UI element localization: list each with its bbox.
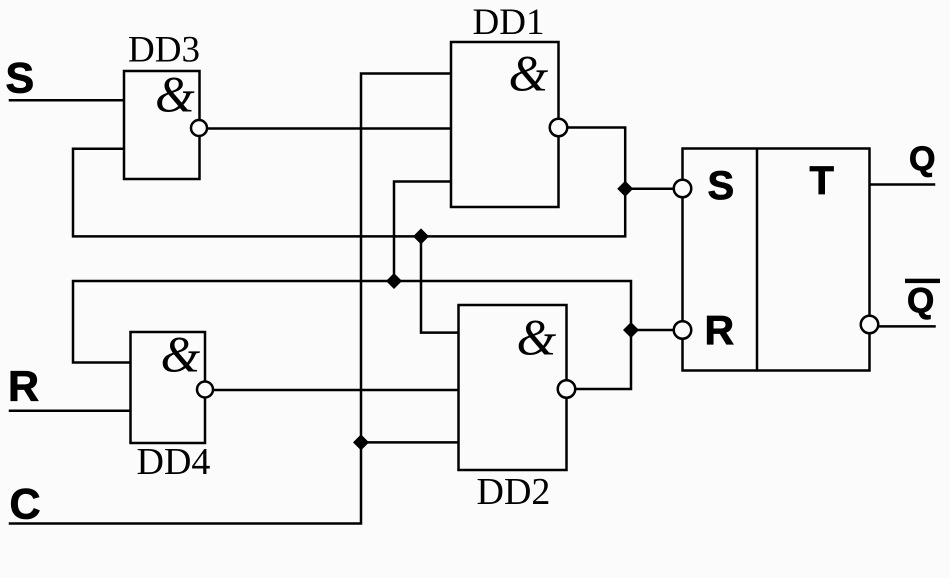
wire branch: node B up to DD1 pin3 xyxy=(394,182,451,282)
flip-flop R input inversion bubble xyxy=(674,321,692,339)
svg-text:S: S xyxy=(708,164,735,208)
svg-text:&: & xyxy=(509,47,549,103)
svg-text:DD2: DD2 xyxy=(477,471,551,513)
svg-text:T: T xyxy=(810,159,834,203)
gate DD4 output inversion bubble xyxy=(197,382,213,398)
svg-text:R: R xyxy=(705,307,735,353)
wire net: DD4 output to DD2 pin2 xyxy=(214,389,459,392)
overbar of inverted Q xyxy=(905,279,940,283)
svg-text:R: R xyxy=(8,363,39,411)
gate DD3 body xyxy=(124,71,200,179)
wire branch: node A down to DD2 pin1 xyxy=(421,236,459,332)
gate DD2 output inversion bubble xyxy=(558,380,576,398)
wire net: R input to DD4 pin2 xyxy=(10,410,131,413)
svg-text:S: S xyxy=(6,55,35,103)
gate DD1 body xyxy=(451,42,559,207)
svg-text:Q: Q xyxy=(909,140,935,178)
junction node B on feedback wire xyxy=(386,273,402,289)
wire net: DD2 output feedback to node and DD4 pin1 xyxy=(73,281,631,389)
svg-text:Q: Q xyxy=(907,282,934,321)
flip-flop T body xyxy=(683,149,870,371)
gate DD4 body xyxy=(131,332,206,443)
flip-flop inverted Q output bubble xyxy=(861,316,879,334)
wire net: C input up to DD1 pin1 xyxy=(10,74,451,524)
junction node: DD1 out to S xyxy=(617,181,633,197)
svg-text:DD4: DD4 xyxy=(137,441,211,483)
wire net: S input to DD3 pin1 xyxy=(10,99,124,102)
svg-text:DD3: DD3 xyxy=(128,30,200,71)
gate DD3 output inversion bubble xyxy=(191,120,207,136)
wire branch: node to T R-input xyxy=(631,329,674,332)
svg-text:C: C xyxy=(10,481,41,529)
svg-text:&: & xyxy=(155,68,195,124)
wire branch: node to T S-input xyxy=(625,188,673,191)
svg-text:&: & xyxy=(517,311,557,367)
junction node A on feedback wire xyxy=(413,228,429,244)
svg-text:&: & xyxy=(161,328,201,384)
gate DD2 body xyxy=(459,305,567,470)
wire net: T inverted Q output xyxy=(879,325,935,328)
wire branch: node C to DD2 pin3 xyxy=(361,441,459,444)
flip-flop T divider xyxy=(756,149,759,371)
svg-text:DD1: DD1 xyxy=(473,2,545,43)
gate DD1 output inversion bubble xyxy=(550,119,568,137)
wire net: T Q output xyxy=(870,183,935,186)
junction node: DD2 out to R xyxy=(623,322,639,338)
junction node on C line xyxy=(353,434,369,450)
wire net: DD3 output to DD1 pin2 xyxy=(209,127,452,130)
flip-flop S input inversion bubble xyxy=(674,180,692,198)
wire net: DD1 output feedback to node and DD3 pin2 xyxy=(73,128,625,237)
